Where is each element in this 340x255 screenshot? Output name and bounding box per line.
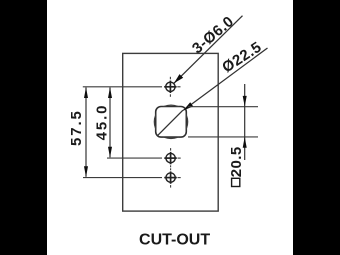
middle hole centerline horizontal [107,157,181,159]
bottom hole centerline horizontal [83,177,181,179]
white drawing sheet [47,0,293,255]
label square 20.5 [228,146,245,186]
middle hole centerline vertical [170,148,172,167]
diameter line through cutout [158,110,183,135]
top hole centerline vertical [169,77,171,97]
leader line 3x dia 6.0 [174,16,243,84]
bottom hole centerline vertical [170,168,172,187]
extension line square top [188,106,258,108]
dimension line 57.5 [84,87,88,177]
svg-text:CUT-OUT: CUT-OUT [139,231,210,248]
leader line dia 22.5 [183,48,267,110]
label 45.0 [94,104,111,141]
svg-text:20.5: 20.5 [228,146,245,177]
svg-text:45.0: 45.0 [94,104,111,141]
middle hole dia 6 [164,152,176,164]
cutout circle dia 22.5 [154,105,187,138]
panel outline rectangle [123,53,219,211]
title CUT-OUT [139,231,210,248]
label dia 22.5 [219,38,265,76]
arrowhead dia 22.5 leader [183,102,193,110]
arrowhead 3x dia 6.0 leader [174,74,183,83]
dimension line square 20.5 [243,84,247,160]
bottom hole dia 6 [164,171,176,183]
top hole dia 6 [164,81,176,93]
extension line square bottom [188,136,258,138]
top hole centerline horizontal [83,86,181,88]
svg-text:57.5: 57.5 [68,109,85,146]
cutout square 20.5 rounded corners [156,107,187,138]
label 3-dia6.0 [189,13,237,57]
label 57.5 [68,109,85,146]
dimension line 45.0 [108,87,112,157]
